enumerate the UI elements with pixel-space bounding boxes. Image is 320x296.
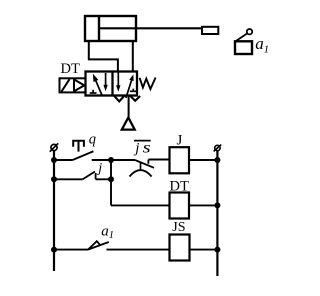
left position: blocked port T bbox=[90, 90, 97, 93]
rung 1 lead J to right rail bbox=[189, 159, 217, 161]
svg-text:a: a bbox=[255, 34, 263, 53]
svg-text:a: a bbox=[101, 223, 109, 239]
exhaust port triangle right bbox=[130, 96, 140, 101]
js fixed contact tick bbox=[147, 160, 149, 164]
right rail bbox=[216, 151, 218, 276]
left rail terminal bbox=[50, 143, 58, 151]
svg-text:DT: DT bbox=[61, 61, 80, 77]
svg-text:JS: JS bbox=[172, 220, 185, 235]
solenoid DT actuator box bbox=[60, 78, 86, 92]
rung 3 right lead bbox=[107, 249, 170, 251]
pipe left (cylinder to valve) bbox=[89, 41, 118, 72]
junction dot left rail rung3 bbox=[51, 247, 57, 253]
svg-text:q: q bbox=[89, 131, 96, 147]
right position: diagonal flow arrow bbox=[126, 80, 132, 98]
limit switch a1 symbol (top right) bbox=[235, 29, 252, 54]
wire to DT coil bbox=[111, 204, 170, 206]
lead JS to right rail bbox=[190, 249, 218, 251]
junction dot branch rung2 bbox=[108, 176, 114, 182]
node at top of branch column bbox=[108, 157, 114, 163]
junction dot right rail DT bbox=[214, 202, 220, 208]
pipe right (cylinder to valve) bbox=[132, 41, 134, 72]
valve divider bbox=[111, 72, 113, 96]
right position: down flow arrow bbox=[117, 73, 119, 87]
a1 actuator wedge bbox=[88, 241, 100, 249]
junction dot left rail rung1 bbox=[51, 157, 57, 163]
svg-text:J: J bbox=[177, 132, 183, 148]
svg-text:DT: DT bbox=[170, 178, 189, 194]
rung 1 left lead bbox=[54, 159, 73, 161]
branch column wire bbox=[110, 160, 112, 205]
time relay coil JS bbox=[170, 235, 190, 261]
junction dot left rail rung2 bbox=[51, 176, 57, 182]
solenoid coil DT bbox=[170, 193, 190, 219]
time contact js blade bbox=[135, 160, 154, 168]
contact q blade bbox=[73, 151, 94, 160]
supply line bbox=[128, 96, 130, 118]
pushbutton cap of q bbox=[73, 141, 84, 152]
rung 2 right lead bbox=[96, 178, 111, 180]
left rail bbox=[53, 151, 55, 271]
left position: diagonal flow arrow bbox=[95, 78, 103, 96]
svg-text:s: s bbox=[143, 139, 151, 156]
js delay stem bbox=[140, 162, 142, 170]
rung 2 left lead bbox=[54, 178, 83, 180]
js delay arc bbox=[130, 170, 152, 176]
rod end block bbox=[202, 27, 218, 34]
piston bbox=[98, 16, 100, 41]
piston rod bbox=[99, 27, 202, 29]
cylinder body bbox=[85, 16, 202, 41]
rung 1 right lead to J coil bbox=[148, 159, 169, 161]
svg-text:1: 1 bbox=[264, 44, 270, 56]
rung 3 left lead bbox=[54, 249, 88, 251]
right position: blocked port T bbox=[130, 89, 137, 92]
rung 1 middle lead bbox=[92, 159, 135, 161]
contact j fixed tick bbox=[95, 173, 97, 179]
junction dot right rail JS bbox=[214, 247, 220, 253]
limit switch contact a1 blade bbox=[88, 242, 109, 250]
relay coil J bbox=[170, 147, 190, 173]
junction dot right rail rung1 bbox=[214, 157, 220, 163]
valve body (2-position) bbox=[86, 72, 138, 96]
right rail terminal bbox=[214, 145, 222, 152]
supply source triangle bbox=[122, 118, 135, 130]
contact j blade bbox=[83, 172, 95, 180]
svg-text:1: 1 bbox=[109, 230, 114, 241]
left position: down flow arrow bbox=[105, 73, 107, 86]
solenoid triangle bbox=[75, 80, 85, 91]
lead DT to right rail bbox=[189, 204, 217, 206]
exhaust port triangle left bbox=[114, 96, 124, 101]
return spring bbox=[140, 78, 156, 90]
label js with overline bbox=[134, 140, 151, 142]
